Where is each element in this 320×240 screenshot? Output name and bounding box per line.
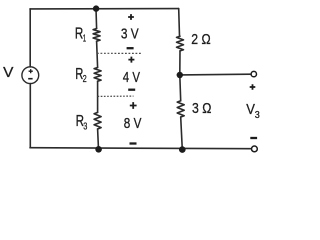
svg-text:3 Ω: 3 Ω: [192, 100, 211, 117]
svg-text:2: 2: [83, 74, 87, 85]
svg-text:4 V: 4 V: [123, 69, 140, 86]
svg-text:3 V: 3 V: [121, 26, 139, 43]
svg-text:1: 1: [83, 34, 87, 45]
svg-text:V: V: [246, 101, 255, 118]
svg-text:8 V: 8 V: [124, 115, 142, 132]
svg-text:3: 3: [83, 122, 87, 133]
svg-text:3: 3: [255, 110, 260, 121]
svg-text:V: V: [3, 64, 13, 81]
svg-text:2 Ω: 2 Ω: [191, 31, 210, 48]
